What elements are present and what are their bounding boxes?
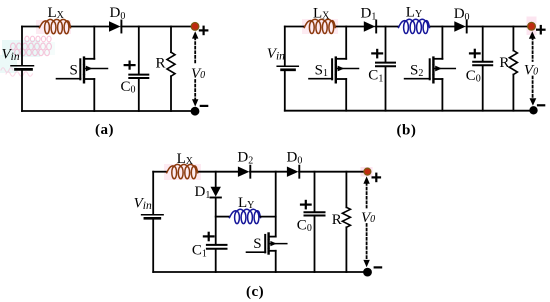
wire: top rail left segment (b) — [285, 26, 305, 28]
wire: top rail coil to D2 (c) — [198, 171, 238, 173]
node - terminal (b) — [529, 106, 537, 114]
svg-text:S: S — [70, 62, 78, 78]
transistor S2 (b) — [405, 27, 456, 111]
jpeg artifact pink coil ghosts — [11, 36, 52, 56]
wire: top rail coil to D0 (a) — [71, 26, 110, 28]
wire: left vertical upper (b) — [284, 27, 286, 66]
capacitor C1 (c) — [207, 244, 227, 246]
node + terminal (c) — [364, 168, 371, 175]
diode D2 (c) — [238, 167, 250, 177]
resistor R (a) — [170, 27, 172, 53]
battery Vin (a) — [11, 65, 34, 67]
diode D1 (c) pointing down — [211, 187, 221, 197]
inductor Lx (c) — [167, 164, 198, 178]
plus sign node (a) — [200, 27, 207, 34]
capacitor C1 (b) — [385, 27, 387, 62]
transistor S1 (b) — [309, 27, 359, 111]
wire: bottom rail (a) — [22, 110, 194, 112]
wire: top rail D1 to Ly (b) — [376, 26, 399, 28]
inductor Ly (b) — [399, 19, 430, 33]
transistor S (a) — [57, 27, 108, 112]
wire: left vertical lower (b) — [284, 71, 286, 111]
capacitor C0 (a) — [138, 27, 140, 74]
plus sign node (b) — [537, 26, 544, 33]
minus sign node (c) — [375, 266, 381, 268]
jpeg artifact pink halo node (c) — [361, 167, 373, 177]
wire: left vertical lower (c) — [152, 219, 154, 272]
inductor Lx (b) — [304, 19, 335, 33]
resistor R (c) — [345, 172, 347, 208]
wire: left vertical lower (a) — [21, 71, 23, 112]
capacitor C0 (b) — [482, 27, 484, 61]
wire: left vertical upper (a) — [21, 27, 23, 66]
battery Vin (b) — [277, 65, 298, 67]
wire: top rail coil to D1 (b) — [335, 26, 363, 28]
wire: bottom rail (b) — [285, 110, 531, 112]
plus sign C1 (b) — [372, 50, 382, 57]
jpeg artifact tint behind coil (c) — [164, 164, 201, 180]
capacitor C0 (c) — [314, 172, 316, 212]
V0 dashed arrow (a) — [194, 38, 196, 100]
wire: Ly right lead (c) — [261, 216, 276, 218]
node - terminal (c) — [363, 268, 372, 277]
svg-text:(b): (b) — [397, 123, 416, 139]
plus sign C0 (a) — [125, 62, 135, 69]
minus sign node (a) — [201, 105, 207, 107]
wire: Ly left lead (c) — [216, 216, 230, 218]
minus sign node (b) — [538, 104, 544, 106]
wire: top rail left segment (c) — [153, 171, 167, 173]
diode D0 (a) — [109, 21, 121, 31]
V0 dashed arrow (b) — [532, 38, 534, 99]
transistor S (c) — [247, 234, 287, 273]
svg-text:R: R — [332, 212, 342, 228]
wire: top rail left segment (a) — [22, 26, 40, 28]
plus sign C0 (b) — [470, 50, 480, 57]
svg-text:R: R — [156, 55, 166, 71]
plus sign C1 (c) — [204, 233, 214, 240]
diode D0 (b) — [454, 21, 466, 31]
svg-text:(c): (c) — [246, 284, 264, 300]
svg-text:R: R — [499, 55, 509, 71]
wire: top rail D0 to node (a) — [121, 26, 194, 28]
jpeg artifact pink halo node (b) — [527, 17, 537, 36]
wire: top rail D0 to node (b) — [466, 26, 530, 28]
V0 dashed arrow (c) — [366, 183, 368, 260]
diode D1 (b) — [364, 21, 376, 31]
jpeg artifact cyan patch left — [2, 40, 40, 57]
wire: S drain vertical (c) — [275, 172, 277, 237]
node - terminal (a) — [191, 107, 200, 116]
resistor R (b) — [512, 27, 514, 51]
wire: top rail D0 to node (c) — [299, 171, 367, 173]
inductor Ly (c) — [230, 209, 261, 223]
battery Vin (c) — [142, 214, 164, 216]
jpeg artifact tint behind coil (b) — [302, 19, 338, 34]
svg-text:(a): (a) — [95, 122, 114, 138]
node + terminal (b) — [528, 22, 536, 30]
diode D0 (c) — [287, 167, 299, 177]
wire: top rail Ly to D0 (b) — [430, 26, 455, 28]
plus sign C0 (c) — [301, 201, 311, 208]
wire: left vertical upper (c) — [152, 172, 154, 214]
wire: top rail D2 to D0 (c) — [250, 171, 287, 173]
wire: D1 branch vertical upper (c) — [215, 172, 217, 187]
plus sign node (c) — [373, 174, 380, 181]
svg-text:S: S — [253, 236, 261, 252]
inductor Lx (a) — [40, 19, 71, 33]
node + terminal (a) — [191, 23, 199, 31]
wire: bottom rail (c) — [153, 271, 367, 273]
wire: D1 to Ly junction to C1 (c) — [215, 198, 217, 244]
jpeg artifact tint behind coil (a) — [36, 20, 71, 34]
